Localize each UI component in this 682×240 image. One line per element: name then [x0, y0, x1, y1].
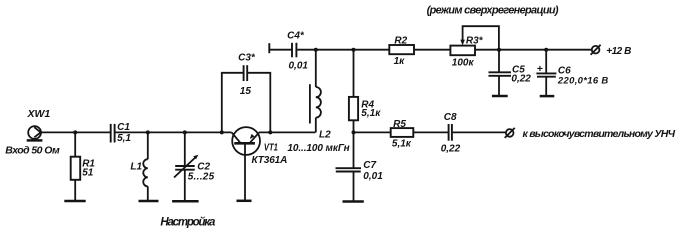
- resistor R2: [389, 36, 414, 67]
- svg-text:0,22: 0,22: [441, 144, 461, 155]
- svg-text:C3*: C3*: [238, 53, 256, 64]
- junction: C3 left: [220, 130, 224, 134]
- ground (C7): [343, 200, 364, 203]
- wire: C3 loop left: [222, 73, 243, 133]
- svg-text:VT1: VT1: [264, 142, 278, 153]
- junction: C6: [544, 48, 548, 52]
- svg-text:R5: R5: [393, 119, 406, 130]
- capacitor C2 (variable): [174, 132, 215, 200]
- svg-text:XW1: XW1: [27, 108, 51, 120]
- svg-text:5,1к: 5,1к: [361, 108, 381, 119]
- junction: L1 top: [146, 130, 150, 134]
- svg-text:C4*: C4*: [287, 31, 305, 42]
- svg-text:L1: L1: [130, 161, 142, 172]
- svg-text:51: 51: [82, 167, 94, 178]
- wire: XW1 to C1: [41, 131, 110, 133]
- capacitor C4: [269, 31, 308, 72]
- wire: C8 to output terminal: [453, 131, 506, 133]
- wire: C4 to R2: [297, 49, 389, 51]
- junction: C3 right: [268, 130, 272, 134]
- svg-text:Вход 50 Ом: Вход 50 Ом: [5, 145, 60, 157]
- svg-text:0,01: 0,01: [363, 171, 383, 182]
- svg-text:Настройка: Настройка: [160, 216, 216, 228]
- svg-text:R3*: R3*: [466, 35, 484, 46]
- wire: emitter to L2 bottom: [259, 131, 316, 133]
- resistor R4: [349, 50, 381, 133]
- capacitor C5: [489, 50, 532, 96]
- wire: C3 loop right: [248, 73, 270, 133]
- junction: C2 top: [183, 130, 187, 134]
- junction: R1 top: [73, 130, 77, 134]
- svg-text:КТ361А: КТ361А: [252, 155, 288, 166]
- svg-text:100к: 100к: [452, 57, 475, 68]
- junction: R4 bottom / C7 / R5: [352, 130, 356, 134]
- ground (C2): [172, 200, 199, 203]
- wire: R3 to +12V terminal: [475, 49, 592, 51]
- terminal +12V: [591, 45, 632, 58]
- capacitor C6: [536, 50, 608, 96]
- svg-text:R2: R2: [394, 36, 407, 47]
- svg-text:C7: C7: [363, 160, 376, 171]
- svg-text:L2: L2: [319, 129, 331, 140]
- wire: C1 to VT1 collector: [116, 131, 232, 133]
- svg-text:10...100 мкГн: 10...100 мкГн: [287, 143, 349, 154]
- svg-text:к высокочувствительному УНЧ: к высокочувствительному УНЧ: [523, 128, 676, 140]
- resistor R5: [391, 119, 414, 150]
- svg-text:5,1: 5,1: [117, 133, 131, 144]
- junction: R4 top: [352, 48, 356, 52]
- wire: node to R5: [354, 131, 391, 133]
- svg-text:15: 15: [240, 86, 252, 97]
- capacitor C1: [111, 122, 132, 144]
- svg-text:C8: C8: [444, 112, 457, 123]
- terminal output to AF amp: [505, 128, 676, 140]
- transistor VT1: [232, 127, 288, 201]
- capacitor C8: [441, 112, 461, 154]
- svg-text:220,0*16 В: 220,0*16 В: [557, 75, 609, 86]
- wire: R2 to R3: [414, 49, 450, 51]
- junction: L2 top: [314, 48, 318, 52]
- connector XW1: [5, 108, 60, 156]
- junction: R3 wiper / C5: [497, 48, 501, 52]
- ground (L1): [139, 200, 159, 203]
- svg-text:(режим сверхрегенерации): (режим сверхрегенерации): [427, 4, 559, 16]
- ground (R1): [64, 200, 85, 203]
- svg-text:1к: 1к: [394, 56, 406, 67]
- svg-text:5...25: 5...25: [188, 171, 215, 182]
- svg-text:+12 В: +12 В: [606, 46, 631, 57]
- svg-text:0,22: 0,22: [511, 74, 531, 85]
- ground (C5): [492, 95, 508, 98]
- inductor L2: [310, 50, 331, 141]
- wire: R5 to C8: [413, 131, 448, 133]
- svg-text:5,1к: 5,1к: [392, 139, 412, 150]
- capacitor C7: [336, 132, 384, 201]
- resistor R1: [71, 132, 96, 200]
- inductor L1: [130, 132, 147, 200]
- svg-text:+: +: [537, 63, 543, 75]
- ground (C6): [540, 95, 555, 98]
- ground (VT1 base): [237, 200, 252, 203]
- svg-text:C1: C1: [117, 122, 130, 133]
- svg-text:0,01: 0,01: [289, 60, 309, 71]
- capacitor C3: [238, 53, 256, 97]
- resistor R3: [450, 26, 499, 68]
